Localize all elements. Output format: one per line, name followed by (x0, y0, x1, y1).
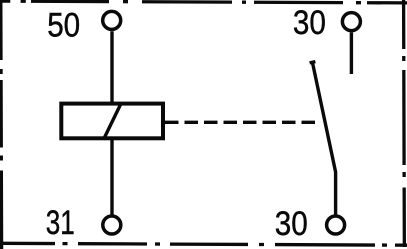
svg-text:30: 30 (293, 4, 326, 42)
svg-text:50: 50 (47, 6, 80, 44)
svg-text:31: 31 (46, 204, 75, 242)
svg-text:30: 30 (275, 205, 308, 243)
